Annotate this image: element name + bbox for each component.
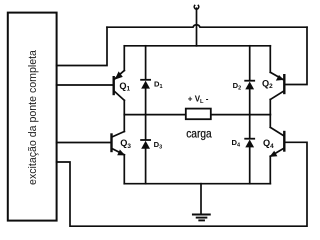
wire supply vertical <box>196 8 198 46</box>
wire inner top rail <box>124 45 270 47</box>
diode D4 <box>245 115 254 184</box>
svg-text:D4: D4 <box>232 138 241 149</box>
diode D2 <box>245 46 254 115</box>
wire block output 1 to outer rail <box>57 27 107 65</box>
wire block output 4 bottom rail to Q4 base <box>57 142 307 226</box>
svg-text:D3: D3 <box>154 140 163 151</box>
wire outer rail to Q2 base <box>285 27 307 84</box>
transistor Q2 <box>270 46 284 115</box>
svg-text:+ VL -: + VL - <box>188 94 209 105</box>
wire Q3 base <box>57 142 111 144</box>
load resistor carga <box>186 109 211 120</box>
transistor Q4 <box>269 115 284 184</box>
node mid rail left <box>124 114 186 116</box>
wire inner bottom rail <box>124 183 270 185</box>
excitation block U1 <box>8 13 57 221</box>
svg-text:D1: D1 <box>154 79 163 90</box>
svg-text:Q1: Q1 <box>119 81 130 93</box>
svg-text:Q2: Q2 <box>262 79 273 91</box>
wire outer top rail with hop <box>107 25 307 27</box>
svg-text:carga: carga <box>186 126 212 140</box>
diode D3 <box>141 115 150 184</box>
ground <box>193 184 210 221</box>
svg-text:Q3: Q3 <box>120 138 131 150</box>
transistor Q1 <box>114 46 125 115</box>
svg-text:D2: D2 <box>233 81 242 92</box>
transistor Q3 <box>112 115 126 184</box>
node mid rail right <box>211 114 270 116</box>
wire Q1 base <box>57 84 113 86</box>
svg-text:excitação da ponte completa: excitação da ponte completa <box>27 50 39 185</box>
diode D1 <box>141 46 150 115</box>
svg-text:Q4: Q4 <box>263 138 274 150</box>
supply terminal <box>194 5 199 9</box>
